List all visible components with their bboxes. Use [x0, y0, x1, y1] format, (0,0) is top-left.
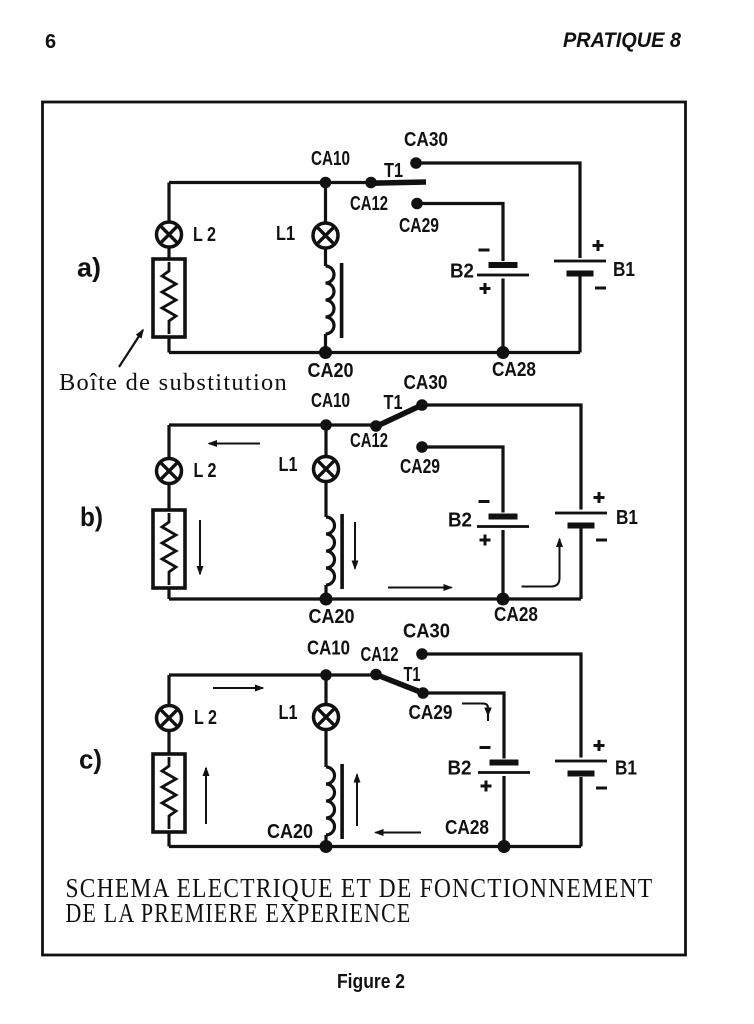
svg-text:L1: L1: [276, 223, 295, 245]
svg-text:L 2: L 2: [194, 460, 217, 482]
svg-text:T1: T1: [384, 160, 403, 182]
svg-text:CA30: CA30: [403, 621, 450, 643]
svg-text:6: 6: [45, 31, 56, 53]
svg-text:L 2: L 2: [193, 224, 216, 246]
svg-text:B2: B2: [450, 261, 474, 283]
svg-text:CA28: CA28: [492, 359, 536, 381]
svg-text:CA10: CA10: [311, 390, 350, 412]
svg-text:CA10: CA10: [311, 148, 350, 170]
svg-text:CA20: CA20: [267, 821, 313, 843]
svg-text:b): b): [80, 502, 103, 532]
svg-text:Figure 2: Figure 2: [337, 971, 405, 993]
svg-text:c): c): [79, 745, 102, 775]
svg-text:B1: B1: [613, 259, 635, 281]
svg-text:L 2: L 2: [194, 707, 217, 729]
svg-text:PRATIQUE 8: PRATIQUE 8: [563, 29, 681, 52]
svg-text:L1: L1: [279, 702, 298, 724]
svg-text:B1: B1: [615, 758, 637, 780]
svg-text:CA28: CA28: [494, 604, 538, 626]
svg-text:a): a): [77, 253, 101, 283]
svg-text:CA29: CA29: [399, 215, 439, 237]
svg-text:CA29: CA29: [409, 702, 453, 724]
svg-text:CA12: CA12: [361, 644, 399, 666]
svg-text:CA30: CA30: [404, 372, 448, 394]
svg-text:B2: B2: [448, 758, 472, 780]
svg-text:CA30: CA30: [404, 129, 448, 151]
svg-text:CA20: CA20: [309, 606, 355, 628]
svg-text:CA12: CA12: [350, 193, 388, 215]
svg-text:B2: B2: [448, 510, 472, 532]
svg-text:CA12: CA12: [350, 430, 388, 452]
svg-text:B1: B1: [616, 507, 638, 529]
svg-text:Boîte de substitution: Boîte de substitution: [59, 369, 288, 396]
svg-text:CA20: CA20: [308, 360, 354, 382]
svg-text:T1: T1: [384, 392, 403, 414]
svg-text:L1: L1: [279, 454, 298, 476]
svg-text:CA10: CA10: [307, 638, 350, 660]
svg-text:CA28: CA28: [445, 817, 489, 839]
svg-text:CA29: CA29: [400, 456, 440, 478]
svg-text:T1: T1: [404, 664, 421, 686]
svg-text:DE LA PREMIERE EXPERIENCE: DE LA PREMIERE EXPERIENCE: [66, 898, 412, 928]
